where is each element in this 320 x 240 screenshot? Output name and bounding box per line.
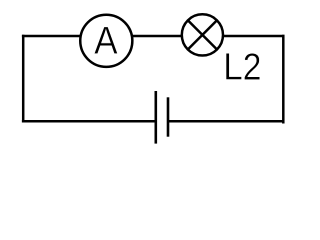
label L2 digit 2 [244, 53, 259, 79]
wire right [282, 35, 285, 124]
label L2 letter L [226, 53, 242, 79]
ammeter A1 circle [80, 15, 132, 67]
wire bottom-left [22, 120, 156, 123]
wire top [22, 35, 285, 38]
wire left [22, 35, 25, 123]
battery B1 short plate [167, 97, 170, 136]
battery B1 long plate [155, 91, 158, 144]
lamp L2 cross stroke 2 [188, 20, 217, 49]
ammeter A1 letter A [94, 27, 117, 54]
lamp L2 circle [182, 14, 223, 55]
wire bottom-right [168, 120, 285, 123]
lamp L2 cross stroke 1 [188, 20, 217, 49]
